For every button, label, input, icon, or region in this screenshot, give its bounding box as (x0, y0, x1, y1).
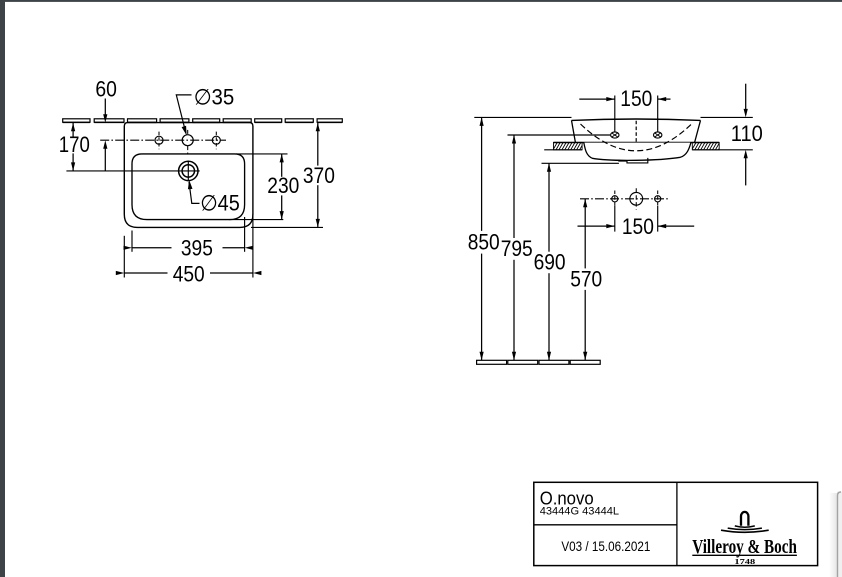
dimension 395 line (132, 247, 245, 249)
wall face line under planks (63, 122, 343, 124)
svg-text:150: 150 (620, 86, 652, 111)
right faucet hole front view (654, 132, 662, 138)
left faucet hole (155, 132, 163, 150)
leader line for diameter 35 (176, 95, 191, 134)
scrollbar panel edge bottom right (0, 0, 1, 1)
Villeroy & Boch logo fountain arch (741, 512, 748, 526)
drain trap outline (619, 158, 648, 163)
left shelf hatch block (553, 142, 584, 149)
795 reference line to hole axis (508, 134, 611, 136)
svg-text:370: 370 (303, 163, 335, 188)
svg-text:450: 450 (173, 261, 205, 286)
top reference line right (110 ref) (701, 116, 753, 118)
center line of basin dashed (635, 121, 637, 142)
svg-text:∅45: ∅45 (200, 191, 240, 216)
dimension 570 arrows (583, 199, 587, 360)
basin outer outline (top view) (124, 123, 253, 228)
right mounting hole (655, 191, 661, 208)
drain hole outer circle (179, 161, 198, 180)
drain hole inner circle (182, 165, 194, 177)
top reference line left (850 ref) (474, 116, 571, 118)
svg-text:V03 / 15.06.2021: V03 / 15.06.2021 (561, 538, 650, 554)
basin rim top edge (572, 119, 701, 120)
middle faucet hole (182, 130, 193, 154)
basin upper body fill (572, 119, 701, 142)
dimension 850 line (481, 117, 483, 360)
dimension 450 extension lines (124, 214, 253, 278)
basin left side edge (572, 120, 576, 142)
dimension 795 line (513, 135, 515, 360)
dimension 395 arrows (124, 246, 254, 250)
dimension 395 extension lines (132, 217, 245, 252)
dimension 370 arrows (316, 123, 320, 228)
svg-text:150: 150 (622, 214, 654, 239)
svg-text:110: 110 (731, 121, 763, 146)
logo water ripple 3 (721, 530, 769, 532)
690 reference line to trap bottom (542, 162, 619, 164)
hidden bowl contour dashed (581, 124, 692, 151)
left faucet hole front view (611, 132, 619, 138)
dimension 370 extension line (251, 226, 323, 228)
title block horizontal divider (534, 524, 677, 526)
dimension 450 arrows (116, 271, 262, 275)
title block outer frame (534, 482, 818, 565)
middle mounting hole (630, 188, 643, 209)
dimension 230 line (281, 154, 283, 220)
right faucet hole (212, 132, 220, 150)
dimension 230 arrows (280, 154, 284, 220)
basin inner bowl outline (top view) (132, 154, 245, 220)
dimension 450 line (124, 272, 253, 274)
dimension 690 arrows (547, 163, 551, 360)
drain hole axis line horizontal (66, 170, 199, 172)
leader arrow for diameter 35 (182, 126, 187, 135)
svg-text:43444G 43444L: 43444G 43444L (540, 505, 619, 517)
logo water ripple 1 (735, 526, 755, 527)
dimension 230 extension lines (229, 154, 288, 220)
drain hole axis line vertical (187, 161, 189, 182)
lower 150 dim extension verticals (615, 206, 658, 232)
browser chrome left bar (0, 0, 5, 577)
svg-text:395: 395 (181, 235, 213, 260)
leader arrow for diameter 45 (188, 180, 193, 189)
faucet holes axis centerline (100, 139, 226, 141)
browser chrome top bar (0, 0, 842, 2)
lower 150 dimension line (578, 225, 695, 227)
svg-text:230: 230 (267, 173, 299, 198)
upper 150 arrows (606, 97, 666, 101)
title block vertical divider (676, 482, 678, 565)
right shelf hatch block (692, 142, 723, 149)
dimension 795 arrows (512, 135, 516, 360)
dimension 370 line (317, 123, 319, 228)
logo water ripple 2 (728, 528, 762, 530)
TITLE BLOCK (534, 482, 818, 565)
dimension 170 line (72, 123, 74, 171)
RIGHT VIEW (front elevation) (474, 84, 753, 365)
wall hatch band planks (63, 119, 343, 122)
svg-text:570: 570 (570, 266, 602, 291)
svg-text:60: 60 (95, 76, 117, 101)
lower 150 arrows (606, 224, 666, 228)
svg-text:795: 795 (501, 236, 533, 261)
leader line for diameter 45 (189, 182, 200, 203)
shelf bottom line right (110 lower ref) (692, 149, 753, 151)
shelf top line (554, 142, 720, 144)
right view dimension texts (468, 86, 763, 291)
dimension 170 arrows (71, 123, 75, 171)
svg-text:850: 850 (468, 229, 500, 254)
dimension 690 line (548, 163, 550, 360)
upper 150 dimension line (579, 98, 670, 100)
svg-text:∅35: ∅35 (194, 85, 235, 110)
dimension 60 line (104, 99, 106, 171)
svg-text:690: 690 (534, 250, 566, 275)
basin bowl underside (584, 143, 691, 161)
left view dimension texts (59, 76, 335, 286)
svg-text:170: 170 (59, 132, 90, 157)
logo wordmark underline (692, 554, 797, 556)
svg-text:1748: 1748 (734, 557, 755, 566)
dimension 850 arrows (480, 117, 484, 360)
shelf bottom line left (544, 149, 582, 151)
mounting holes axis centerline (580, 198, 670, 200)
left mounting hole (612, 191, 618, 208)
dimension 570 line (584, 199, 586, 360)
dimension 60 arrows (103, 114, 107, 148)
dimension 110 arrows (744, 109, 748, 158)
floor plank segments (477, 360, 601, 364)
basin right side edge (695, 120, 701, 142)
upper 150 dim extension verticals (615, 96, 658, 133)
dimension 110 line (745, 84, 747, 186)
